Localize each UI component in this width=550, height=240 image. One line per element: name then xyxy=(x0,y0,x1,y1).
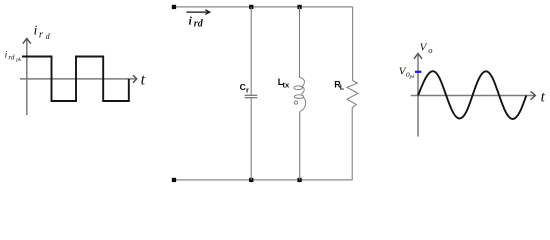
svg-text:t: t xyxy=(141,72,146,89)
svg-text:t: t xyxy=(541,90,546,106)
svg-text:pk: pk xyxy=(15,57,22,63)
node dot top L xyxy=(297,5,301,9)
svg-text:V: V xyxy=(420,42,428,54)
label RL xyxy=(334,80,345,92)
left graph i_rdpk label xyxy=(5,51,22,63)
node dot bottom C xyxy=(249,178,253,182)
svg-text:i: i xyxy=(34,24,38,39)
node dot bottom L xyxy=(297,178,301,182)
node dot bottom-left xyxy=(172,178,176,182)
svg-text:i: i xyxy=(189,13,193,27)
inductor Ltx wire bottom xyxy=(299,111,301,179)
svg-text:tx: tx xyxy=(283,81,291,90)
inductor Ltx wire top xyxy=(299,7,301,78)
circuit bottom rail xyxy=(174,179,353,181)
left graph y label i_rd xyxy=(34,24,51,41)
left graph y-axis xyxy=(23,38,31,115)
label Ltx xyxy=(278,77,290,90)
right graph y-axis xyxy=(414,54,422,137)
svg-text:L: L xyxy=(340,83,345,92)
capacitor Cr plates xyxy=(245,95,258,97)
svg-text:C: C xyxy=(240,82,246,92)
capacitor Cr wire bottom xyxy=(250,98,252,180)
label Cr xyxy=(240,82,249,95)
right graph t-axis xyxy=(411,91,536,99)
svg-text:r: r xyxy=(39,29,44,40)
svg-text:o: o xyxy=(428,45,432,55)
svg-text:r: r xyxy=(246,85,249,94)
node dot top C xyxy=(249,5,253,9)
capacitor Cr wire top xyxy=(250,7,252,95)
left graph t-axis xyxy=(20,75,137,83)
svg-text:rd: rd xyxy=(194,18,204,29)
svg-text:d: d xyxy=(46,32,51,41)
label V_opk xyxy=(399,66,415,81)
sine wave Vo xyxy=(418,71,526,119)
node dot top-left xyxy=(172,5,176,9)
label V_o xyxy=(420,42,433,55)
svg-text:pk: pk xyxy=(409,74,416,80)
label i_rd (current) xyxy=(189,13,204,29)
circuit top rail xyxy=(174,6,353,8)
svg-text:rd: rd xyxy=(8,53,14,61)
resistor RL branch (right edge with zigzag) xyxy=(347,7,358,180)
vector arrow i_rd xyxy=(186,10,209,15)
inductor Ltx coil xyxy=(294,77,306,111)
svg-text:i: i xyxy=(5,51,8,61)
square wave i_rd xyxy=(22,57,129,102)
Vopk blue tick xyxy=(415,71,421,73)
